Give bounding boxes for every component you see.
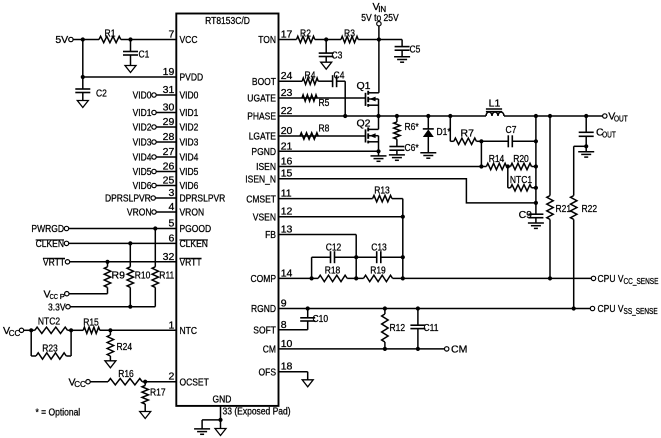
svg-text:C12: C12 — [326, 241, 342, 253]
wire C7 to branch — [512, 140, 536, 142]
node C12/C13 mid — [354, 255, 358, 259]
svg-text:FB: FB — [265, 229, 276, 241]
wire Q2 source down — [378, 136, 380, 156]
capacitor C6* — [389, 142, 418, 155]
wire C4 to PHASE — [337, 81, 346, 116]
svg-text:R10: R10 — [135, 270, 151, 282]
pin 32 number — [163, 251, 175, 263]
svg-text:8: 8 — [281, 319, 287, 331]
node R14/R20/NTC1 — [506, 164, 510, 168]
wire ISEN_N route — [279, 179, 536, 203]
terminal 3.3V — [48, 301, 70, 313]
svg-text:VID6: VID6 — [180, 180, 199, 192]
terminal VRTT — [43, 257, 70, 269]
svg-text:29: 29 — [163, 116, 175, 128]
wire GND pad down — [220, 406, 222, 420]
earth ground under Q2 — [371, 156, 387, 161]
node R20 right — [534, 164, 538, 168]
wire VID2 — [156, 126, 176, 128]
capacitor C7 — [506, 124, 517, 147]
node at C1 tap — [128, 37, 132, 41]
terminal VOUT — [603, 111, 628, 124]
pin 11 number — [281, 188, 292, 200]
IC U1 name label — [205, 15, 250, 27]
resistor R16 — [108, 368, 142, 385]
svg-text:9: 9 — [281, 298, 287, 310]
terminal VIN — [361, 1, 398, 40]
resistor R2 — [297, 27, 315, 42]
svg-text:COMP: COMP — [251, 273, 277, 285]
wire VID3 — [156, 141, 176, 143]
wire VID5 — [156, 171, 176, 173]
svg-text:R1: R1 — [105, 27, 116, 39]
svg-text:VID3: VID3 — [180, 137, 199, 149]
pin 22 number — [281, 105, 293, 117]
pin 15 ISEN_N label — [245, 173, 276, 185]
wire to PVDD pin — [83, 76, 177, 78]
pin 7 number — [168, 29, 174, 41]
svg-text:SS_SENSE: SS_SENSE — [624, 307, 658, 316]
earth ground under C6 — [389, 155, 405, 160]
wire PHASE to Q2 drain — [378, 116, 380, 129]
svg-text:C11: C11 — [424, 322, 439, 334]
wire ISEN pin to R14 — [279, 166, 487, 168]
wire R1 to VCC pin — [121, 39, 177, 41]
wire to earth ground — [202, 420, 220, 429]
svg-text:NTC: NTC — [180, 325, 198, 337]
svg-text:OUT: OUT — [614, 115, 628, 124]
svg-text:OFS: OFS — [259, 366, 277, 378]
resistor R12 — [382, 309, 406, 349]
pin 20 LGATE label — [249, 131, 276, 143]
pin 33 GND label — [213, 394, 232, 406]
svg-text:21: 21 — [281, 140, 293, 152]
pin 13 FB label — [265, 229, 276, 241]
pin 2 number — [168, 371, 174, 383]
wire CLKEN — [69, 242, 177, 244]
svg-text:27: 27 — [163, 146, 175, 158]
pin 33 exposed pad label — [223, 406, 291, 418]
terminal VRON — [127, 207, 156, 219]
note optional — [36, 407, 81, 419]
wire Q1 source to PHASE — [378, 99, 380, 116]
pin 15 number — [281, 168, 293, 180]
wire VID4 — [156, 156, 176, 158]
svg-text:RT8153C/D: RT8153C/D — [205, 15, 250, 27]
earth ground at pad — [194, 429, 210, 434]
wire VRTT — [70, 261, 177, 263]
svg-text:1: 1 — [168, 319, 174, 331]
svg-text:C4: C4 — [334, 69, 345, 81]
wire VCC to NTC2 — [24, 329, 32, 331]
wire OFS pin — [279, 372, 308, 380]
svg-text:SOFT: SOFT — [253, 325, 276, 337]
svg-text:7: 7 — [168, 29, 174, 41]
node C7 branch top — [534, 114, 538, 118]
svg-text:2: 2 — [168, 371, 174, 383]
pin 20 number — [281, 125, 293, 137]
svg-text:C3: C3 — [332, 50, 343, 62]
svg-text:* = Optional: * = Optional — [36, 407, 81, 419]
svg-text:NTC1: NTC1 — [510, 174, 532, 186]
wire BOOT pin to R4 — [279, 80, 303, 82]
pin 28 number — [163, 131, 175, 143]
pin 14 COMP label — [251, 273, 277, 285]
capacitor C3 — [319, 40, 343, 63]
svg-text:19: 19 — [163, 66, 175, 78]
pin 21 number — [281, 140, 293, 152]
svg-text:CM: CM — [451, 344, 467, 356]
pin 10 CM label — [263, 344, 276, 356]
node R11 top — [153, 226, 157, 230]
node C13 right — [401, 255, 405, 259]
pin 27 VID4 label — [180, 152, 199, 164]
svg-text:16: 16 — [281, 156, 293, 168]
node R21 bottom — [548, 276, 552, 280]
pin 25 number — [163, 175, 175, 187]
svg-text:R7: R7 — [461, 128, 475, 140]
node ISEN_N junction — [534, 201, 538, 205]
svg-text:R23: R23 — [42, 342, 58, 354]
terminal VCC (OCSET) — [69, 376, 91, 389]
svg-text:Q2: Q2 — [357, 118, 371, 130]
svg-text:VSEN: VSEN — [253, 211, 276, 223]
pin 3 DPRSLPVR label — [180, 193, 226, 205]
svg-text:18: 18 — [281, 361, 293, 373]
svg-text:CPU V: CPU V — [598, 273, 624, 285]
wire R13 corner down — [392, 199, 403, 279]
svg-text:R13: R13 — [374, 184, 390, 196]
svg-text:CC_SENSE: CC_SENSE — [624, 277, 659, 286]
wire TON pin to R2 — [279, 39, 297, 41]
svg-text:PHASE: PHASE — [247, 111, 276, 123]
capacitor C1 — [123, 40, 150, 66]
wire R16 to OCSET pin — [142, 381, 176, 383]
svg-text:DPRSLPVR: DPRSLPVR — [105, 193, 151, 205]
svg-text:DPRSLPVR: DPRSLPVR — [180, 193, 226, 205]
ground under R17 — [140, 412, 151, 419]
svg-text:VID0: VID0 — [133, 90, 152, 102]
resistor R1 — [99, 27, 121, 42]
svg-text:PWRGD: PWRGD — [31, 223, 64, 235]
resistor R3 — [341, 27, 358, 42]
node R12 top — [383, 306, 387, 310]
wire CM pin — [279, 348, 445, 350]
svg-text:22: 22 — [281, 105, 293, 117]
resistor R18 — [318, 264, 347, 281]
pin 9 RGND label — [251, 303, 276, 315]
node R9 top — [105, 260, 109, 264]
svg-text:5V to 25V: 5V to 25V — [361, 12, 398, 24]
node Q2 source / PGND — [376, 149, 380, 153]
terminal VID6 — [133, 180, 157, 192]
pin 13 number — [281, 224, 293, 236]
pin 1 number — [168, 319, 174, 331]
terminal CLKEN — [36, 238, 69, 250]
wire DPRSLPVR — [155, 197, 176, 199]
svg-text:RGND: RGND — [251, 303, 276, 315]
wire SOFT pin — [279, 329, 308, 331]
svg-text:R14: R14 — [489, 153, 505, 165]
svg-text:VID2: VID2 — [133, 122, 152, 134]
svg-text:C13: C13 — [371, 241, 387, 253]
resistor NTC1 — [510, 174, 536, 191]
resistor R24 — [107, 330, 132, 361]
svg-text:R16: R16 — [118, 368, 134, 380]
terminal VID0 — [133, 90, 157, 102]
node R10 top — [128, 241, 132, 245]
pin 18 number — [281, 361, 293, 373]
svg-text:CPU V: CPU V — [598, 303, 624, 315]
resistor R5 — [302, 95, 330, 109]
wire PHASE rail — [279, 115, 487, 117]
wire COMP to CPU VCC sense — [393, 277, 592, 279]
resistor R21 — [547, 116, 571, 278]
svg-text:C1: C1 — [139, 49, 150, 61]
svg-text:VID0: VID0 — [180, 90, 199, 102]
pin 21 PGND label — [251, 146, 276, 158]
triangle ground at pad — [215, 429, 226, 436]
node mid COMP — [354, 276, 358, 280]
wire VID6 — [156, 185, 176, 187]
pin 4 VRON label — [180, 207, 205, 219]
resistor R7 — [450, 128, 481, 145]
wire VRON — [156, 211, 176, 213]
node VIN — [377, 37, 381, 41]
svg-text:OCSET: OCSET — [180, 376, 210, 388]
resistor R15 — [83, 316, 100, 333]
svg-text:VID6: VID6 — [133, 180, 152, 192]
wire VIN to Q1 drain — [378, 40, 380, 93]
wire VCCP to R9 — [69, 293, 108, 295]
svg-text:D1*: D1* — [437, 126, 451, 138]
pin 5 PGOOD label — [180, 223, 212, 235]
node C10 top — [306, 306, 310, 310]
transistor Q1 — [357, 80, 379, 107]
pin 16 number — [281, 156, 293, 168]
wire down to R7 — [449, 116, 451, 141]
wire R3 to VIN node — [358, 39, 379, 41]
resistor R17 — [142, 382, 166, 412]
node NTC1 right — [534, 186, 538, 190]
pin 17 number — [281, 29, 293, 41]
svg-text:ISEN: ISEN — [256, 161, 276, 173]
svg-text:R5: R5 — [319, 97, 330, 109]
svg-text:5V: 5V — [55, 34, 68, 46]
svg-text:R8: R8 — [319, 123, 330, 135]
pin 12 number — [281, 206, 293, 218]
svg-text:4: 4 — [168, 201, 174, 213]
wire VID1 — [156, 112, 176, 114]
terminal DPRSLPVR — [105, 193, 155, 205]
pin 5 number — [168, 218, 174, 230]
svg-text:C5: C5 — [410, 44, 421, 56]
resistor R13 — [373, 184, 392, 202]
svg-text:C2: C2 — [96, 88, 107, 100]
pin 12 VSEN label — [253, 211, 276, 223]
pin 11 CMSET label — [246, 193, 276, 205]
resistor R23 parallel — [31, 330, 71, 359]
svg-text:VID1: VID1 — [133, 107, 152, 119]
svg-text:PGND: PGND — [251, 146, 276, 158]
pin 27 number — [163, 146, 175, 158]
ground under C3 — [321, 62, 332, 69]
terminal PWRGD — [31, 223, 68, 235]
wire to triangle ground — [220, 420, 222, 429]
svg-text:R3: R3 — [344, 27, 355, 39]
svg-text:17: 17 — [281, 29, 293, 41]
pin 29 VID2 label — [180, 122, 199, 134]
terminal VCC (NTC) — [3, 325, 24, 338]
terminal VID3 — [133, 137, 157, 149]
svg-text:26: 26 — [163, 161, 175, 173]
svg-text:3: 3 — [168, 187, 174, 199]
node R7/C7 — [479, 139, 483, 143]
wire R4 to C4 — [318, 80, 332, 82]
svg-text:C10: C10 — [313, 313, 329, 325]
pin 19 PVDD label — [180, 72, 204, 84]
svg-text:24: 24 — [281, 70, 293, 82]
terminal VID1 — [133, 107, 157, 119]
svg-text:VID5: VID5 — [133, 166, 152, 178]
svg-text:VID5: VID5 — [180, 166, 199, 178]
pin 8 number — [281, 319, 287, 331]
wire C12 stub — [311, 257, 313, 278]
svg-text:R4: R4 — [305, 69, 316, 81]
pin 19 number — [163, 66, 175, 78]
resistor R19 — [364, 264, 393, 281]
capacitor C10 — [300, 309, 328, 330]
wire UGATE pin to Q1 gate — [279, 97, 366, 99]
svg-text:VRON: VRON — [180, 207, 205, 219]
svg-text:R19: R19 — [370, 264, 386, 276]
ground under C2 — [77, 101, 88, 108]
svg-text:OUT: OUT — [602, 131, 616, 140]
svg-text:11: 11 — [281, 188, 292, 200]
svg-text:PGOOD: PGOOD — [180, 223, 212, 235]
node NTC2 left — [29, 328, 33, 332]
node R19 right — [401, 276, 405, 280]
diode D1* — [423, 114, 451, 153]
ground under R24 — [105, 361, 116, 368]
wire PWRGD to PGOOD — [69, 228, 177, 230]
IC U1 RT8153C/D body — [176, 14, 278, 406]
ground under C5 — [394, 57, 410, 62]
svg-text:15: 15 — [281, 168, 293, 180]
svg-text:R11: R11 — [159, 270, 174, 282]
capacitor C9 — [519, 209, 544, 223]
wire FB pin — [279, 235, 357, 279]
svg-text:R17: R17 — [150, 387, 166, 399]
svg-text:CC: CC — [50, 292, 59, 301]
wire VCC to R16 — [90, 381, 108, 383]
node Q1/Q2 phase — [376, 114, 380, 118]
wire LGATE pin to Q2 gate — [279, 135, 366, 137]
pin 26 VID5 label — [180, 166, 199, 178]
node C12 stub base — [310, 276, 314, 280]
pin 29 number — [163, 116, 175, 128]
terminal CPU VSS_SENSE — [590, 303, 657, 316]
svg-text:R20: R20 — [513, 153, 529, 165]
wire PGND pin — [279, 150, 379, 152]
svg-text:R21: R21 — [556, 203, 572, 215]
svg-text:14: 14 — [281, 267, 293, 279]
svg-text:33 (Exposed Pad): 33 (Exposed Pad) — [223, 406, 291, 418]
pin 1 NTC label — [180, 325, 198, 337]
svg-text:CM: CM — [263, 344, 276, 356]
pin 23 UGATE label — [247, 93, 276, 105]
svg-text:20: 20 — [281, 125, 293, 137]
svg-text:CC: CC — [74, 380, 86, 389]
pin 26 number — [163, 161, 175, 173]
earth ground under C9 — [528, 223, 544, 228]
svg-text:UGATE: UGATE — [247, 93, 276, 105]
svg-text:NTC2: NTC2 — [38, 315, 60, 327]
terminal VID5 — [133, 166, 157, 178]
wire 5V to R1 — [73, 39, 99, 41]
svg-text:13: 13 — [281, 224, 293, 236]
svg-text:ISEN_N: ISEN_N — [245, 173, 276, 185]
pin 24 BOOT label — [252, 76, 277, 88]
pin 18 OFS label — [259, 366, 277, 378]
pin 23 number — [281, 87, 293, 99]
svg-text:VID4: VID4 — [180, 152, 199, 164]
svg-text:R15: R15 — [83, 316, 99, 328]
wire R15 to NTC pin — [100, 329, 177, 331]
pin 6 CLKEN label — [180, 238, 208, 250]
node at 5V/PVDD branch — [81, 37, 85, 41]
svg-text:R9: R9 — [112, 270, 126, 282]
resistor R8 — [300, 123, 330, 140]
wire VOUT rail — [504, 115, 603, 117]
svg-text:R12: R12 — [390, 322, 406, 334]
svg-text:C9: C9 — [519, 209, 533, 221]
svg-text:LGATE: LGATE — [249, 131, 276, 143]
svg-text:VCC: VCC — [180, 34, 198, 46]
pin 9 number — [281, 298, 287, 310]
capacitor C12 — [312, 241, 357, 263]
svg-text:5: 5 — [168, 218, 174, 230]
capacitor C11 — [410, 309, 438, 349]
capacitor C13 — [356, 241, 403, 263]
pin 3 number — [168, 187, 174, 199]
svg-text:C6*: C6* — [405, 142, 419, 154]
pin 28 VID3 label — [180, 137, 199, 149]
terminal CM — [445, 344, 468, 356]
svg-text:R24: R24 — [117, 341, 133, 353]
terminal VCCP — [44, 288, 70, 301]
resistor R9 — [104, 262, 125, 294]
resistor R6* — [394, 114, 419, 147]
pin 30 VID1 label — [180, 107, 199, 119]
wire to C7 — [481, 140, 508, 142]
node R14 left — [479, 164, 483, 168]
terminal 5V — [55, 34, 73, 46]
pin 31 VID0 label — [180, 90, 199, 102]
svg-text:6: 6 — [168, 232, 174, 244]
pin 24 number — [281, 70, 293, 82]
svg-text:BOOT: BOOT — [252, 76, 277, 88]
svg-text:C7: C7 — [506, 124, 517, 136]
wire CMSET pin to R13 — [279, 198, 373, 200]
pin 31 number — [163, 84, 175, 96]
pin 10 number — [281, 338, 293, 350]
node COUT top — [584, 114, 588, 118]
node R24 tap — [108, 328, 112, 332]
wire sense branch vertical — [535, 116, 537, 214]
svg-text:R22: R22 — [582, 203, 598, 215]
pin 16 ISEN label — [256, 161, 276, 173]
